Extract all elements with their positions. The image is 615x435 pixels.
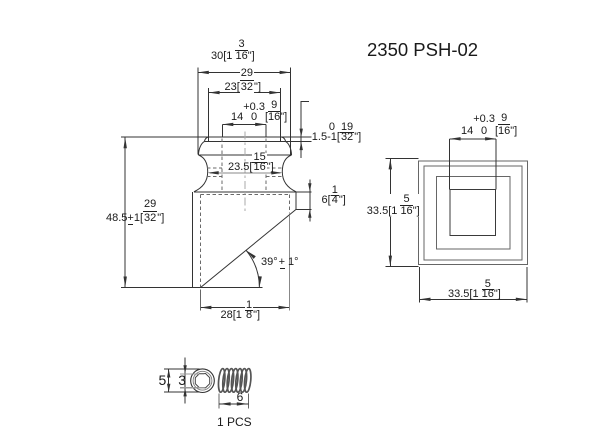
title text xyxy=(367,41,478,60)
dim 14 front: left extension xyxy=(221,124,223,137)
arrow dim14t right xyxy=(485,137,496,140)
dim 33.5 bottom: right extension xyxy=(526,267,528,303)
arrow dim23.5 left (pointing left) xyxy=(208,171,219,174)
dim text 48.5 +/-1 [29/32"] xyxy=(106,198,164,225)
dim text 14 +0.3/0 [9/16"] top view xyxy=(461,112,517,137)
arrow dim1.5 bottom (pointing up) xyxy=(300,142,303,151)
arrow angle arc top (pointing up along diagonal) xyxy=(245,249,256,259)
arrow dim23.5 right (pointing right) xyxy=(271,171,282,174)
dim text 23.5[15/16"] xyxy=(228,153,274,173)
arrow screw6 left xyxy=(220,402,231,405)
hidden setscrew hole right top xyxy=(266,167,282,169)
dim 14 front: right extension xyxy=(265,124,267,137)
front view: ledge bottom extension for 6 dim xyxy=(296,208,311,210)
dim text 14 +0.3/0 [9/16"] front xyxy=(231,100,287,123)
screw dim3 bottom gray line xyxy=(180,387,205,389)
screw inner circle xyxy=(193,371,212,390)
hidden base hole top edge xyxy=(200,193,289,195)
front view: shoe right lip corner arc xyxy=(282,137,286,142)
dim 23: left extension line xyxy=(208,88,210,142)
dim 30: right extension line xyxy=(290,68,292,155)
centerline of front view xyxy=(244,132,246,213)
screw dim5 bottom tangent line xyxy=(164,391,200,393)
dim 14 top view: right extension xyxy=(495,139,497,190)
arrow angle arc bottom (pointing down) xyxy=(258,276,262,287)
dim 23.5: dimension line xyxy=(210,172,281,174)
front view: shoe left upper bulge xyxy=(198,142,204,155)
arrow screw3 bottom (up) xyxy=(183,388,186,397)
front view: top face line + 48.5 top extension + 1.5 extension xyxy=(121,136,311,138)
front view: bottom edge + angle base line + 48.5 bottom extension xyxy=(121,287,263,289)
arrow dim33.5B right xyxy=(516,298,527,301)
arrow dim30 right xyxy=(280,71,291,74)
screw dim text 6 xyxy=(237,391,244,403)
hidden setscrew hole left top xyxy=(207,167,222,169)
arrow dim6 top (pointing down) xyxy=(308,183,311,192)
dim 23: right extension line xyxy=(279,88,281,142)
arrow dim28 right xyxy=(279,306,290,309)
angle arc 39 deg xyxy=(246,251,259,288)
thread coil 7 xyxy=(244,369,252,393)
front view: body right edge xyxy=(295,192,297,210)
front view: shoe right upper bulge xyxy=(286,142,292,155)
arrow dim33.5L top xyxy=(389,158,392,169)
front view: shoe flare bottom line + 6-dim top extension xyxy=(194,191,311,193)
dim 1.5: vertical line with top hook xyxy=(301,102,309,159)
front view: shoe right waist curve xyxy=(282,155,296,192)
arrow screw3 top (down) xyxy=(183,365,186,374)
screw dim6 dimension line xyxy=(219,403,248,405)
dim 33.5 left: dimension line xyxy=(389,158,391,266)
dim 33.5 left: top extension xyxy=(386,157,419,159)
top view square 2 xyxy=(424,166,522,260)
hidden hole left edge (upper) xyxy=(221,139,223,193)
arrow dim14f right xyxy=(255,123,266,126)
dim 30: left extension line xyxy=(197,68,199,155)
arrow dim6 bottom (pointing up) xyxy=(308,209,311,218)
front view: shoe ridge line xyxy=(198,154,291,156)
screw dim text 3 xyxy=(178,373,186,387)
arrow dim33.5L bottom xyxy=(389,256,392,267)
thread coil 2 xyxy=(222,369,230,393)
arrow dim23 right xyxy=(269,91,280,94)
hidden setscrew hole left bottom xyxy=(207,176,222,178)
dim 33.5 bottom: left extension xyxy=(419,267,421,303)
arrow dim1.5 top (pointing down) xyxy=(300,129,303,138)
dim 14 front: dimension line xyxy=(222,123,266,125)
dim text 6[1/4"] xyxy=(322,186,346,206)
dim 6: vertical dimension line xyxy=(309,180,311,222)
dim 48.5: vertical dimension line xyxy=(124,137,126,287)
arrow dim14f left xyxy=(222,123,233,126)
thread coil 5 xyxy=(235,369,243,393)
dim text 23[29/32"] xyxy=(225,67,262,94)
arrow dim33.5B left xyxy=(420,298,431,301)
SET SCREW side view threads xyxy=(218,369,252,393)
thread coil 1 xyxy=(218,369,226,393)
hidden setscrew hole right bottom xyxy=(266,176,282,178)
front view: under-lip line + 1.5 extension xyxy=(204,141,311,143)
dim 28: left extension line xyxy=(199,290,201,311)
front view: shoe left lip corner arc xyxy=(204,137,208,142)
arrow dim48.5 top (pointing up) xyxy=(123,137,126,148)
screw dim3 top gray line xyxy=(180,373,205,375)
screw dim text 5 xyxy=(159,373,167,387)
top view inner square 14 xyxy=(450,190,495,236)
dim 33.5 left: bottom extension xyxy=(386,266,419,268)
screw dim3 vertical line xyxy=(184,357,186,403)
dim text 33.5[1 5/16"] left xyxy=(367,194,420,217)
arrow screw6 right xyxy=(237,402,248,405)
screw dim6 right extension xyxy=(247,394,249,409)
front view: shoe left waist curve xyxy=(194,155,208,192)
top view square 3 xyxy=(437,177,510,249)
dim text 28[1 1/8"] xyxy=(221,301,261,321)
screw outer circle xyxy=(191,369,215,393)
screw dim5 top tangent line xyxy=(164,368,200,370)
arrow dim23 left xyxy=(209,91,220,94)
dim 28: right extension line xyxy=(289,216,291,311)
front view: body left edge xyxy=(192,192,194,288)
hidden base hole left edge xyxy=(199,194,201,286)
dim 14 top view: left extension xyxy=(449,139,451,190)
TOP VIEW xyxy=(419,161,528,265)
thread coil 6 xyxy=(239,369,247,393)
dim 28: dimension line xyxy=(200,307,289,309)
thread coil 3 xyxy=(226,369,234,393)
hex socket octagon xyxy=(195,374,209,388)
dim text 30[1 3/16"] xyxy=(211,39,255,62)
screw dim6 left extension xyxy=(218,394,220,409)
dim 23: dimension line xyxy=(209,92,281,94)
top view outer square 33.5 xyxy=(419,161,528,265)
dim text 1.5 0/-1 [19/32"] xyxy=(312,122,361,143)
hidden hole right edge (upper) xyxy=(265,139,267,193)
arrow dim48.5 bottom (pointing down) xyxy=(123,277,126,288)
arrow screw5 bottom (down) xyxy=(167,384,170,393)
dim 30: dimension line xyxy=(198,71,291,73)
quantity text 1 PCS xyxy=(217,416,252,428)
dim 14 top view: dimension line xyxy=(450,138,497,140)
dim text 39 deg xyxy=(261,257,299,268)
screw dim5 vertical line xyxy=(168,369,170,392)
arrow dim28 left xyxy=(200,306,211,309)
hidden base hole right edge xyxy=(289,194,291,213)
dim text 33.5[1 5/16"] bottom xyxy=(448,280,501,300)
arrow screw5 top (up) xyxy=(167,369,170,378)
thread coil 4 xyxy=(231,369,239,393)
arrow dim14t left xyxy=(450,137,461,140)
front view: diagonal 39 deg cut xyxy=(200,209,296,287)
dim 33.5 bottom: dimension line xyxy=(420,298,527,300)
arrow dim30 left xyxy=(198,71,209,74)
SET SCREW end view xyxy=(191,369,215,393)
